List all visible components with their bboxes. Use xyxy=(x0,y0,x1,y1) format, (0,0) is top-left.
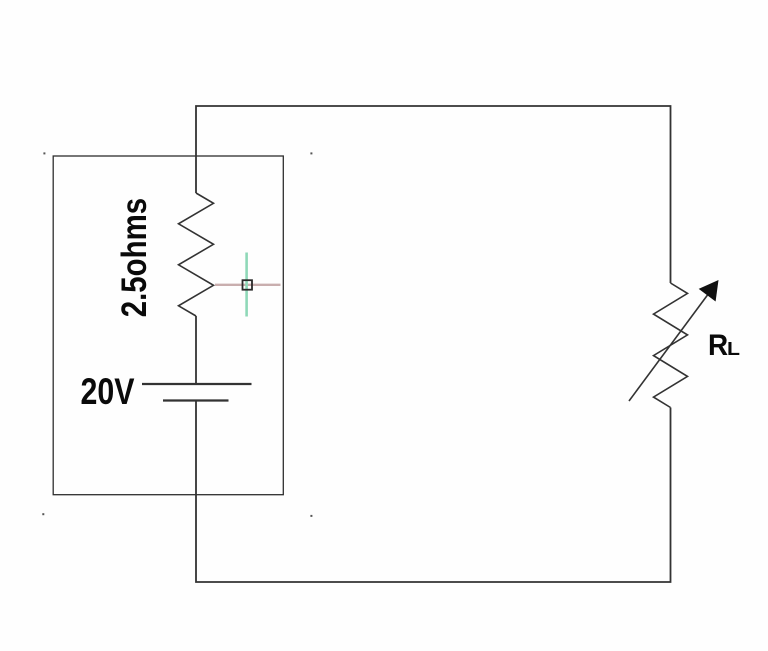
resistor R1 zigzag (2.5ohms) xyxy=(179,193,214,316)
wire: top horizontal + right vertical down to RL xyxy=(196,106,671,283)
blip mark bottom-left xyxy=(42,513,44,515)
blip mark top-right xyxy=(310,152,312,154)
label 20V xyxy=(81,371,135,413)
wire: bottom horizontal + left vertical up to battery bottom xyxy=(196,401,671,583)
battery V1 top plate (long, +) xyxy=(142,383,252,385)
dashed/solid enclosure box around source xyxy=(53,156,283,495)
crosshair cursor vertical axis (green) xyxy=(245,253,248,317)
svg-text:2.5ohms: 2.5ohms xyxy=(114,198,153,317)
wire: battery top plate up to resistor bottom xyxy=(195,316,197,384)
RL arrowhead xyxy=(699,280,719,302)
label 2.5ohms (rotated) xyxy=(114,198,153,317)
svg-text:R: R xyxy=(708,329,728,362)
label RL xyxy=(708,329,728,362)
blip mark top-left xyxy=(43,152,45,154)
svg-text:20V: 20V xyxy=(81,371,135,413)
svg-text:L: L xyxy=(727,339,740,359)
blip mark bottom-right xyxy=(310,515,312,517)
label RL subscript xyxy=(727,339,740,359)
variable resistor RL zigzag xyxy=(654,283,688,408)
RL arrow shaft xyxy=(629,293,709,401)
battery V1 bottom plate (short, -) xyxy=(163,399,229,401)
cursor pickbox xyxy=(243,280,253,290)
crosshair cursor horizontal axis (pink) xyxy=(215,284,281,286)
